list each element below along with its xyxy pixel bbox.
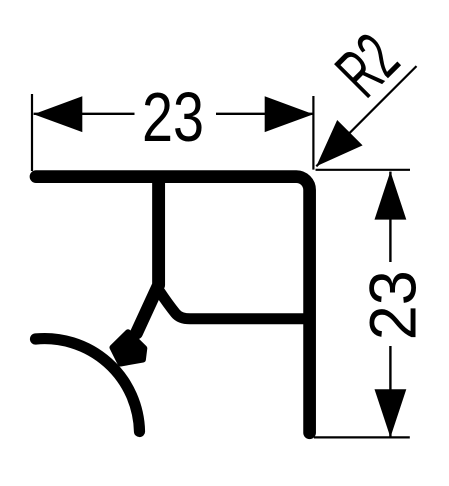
- profile inner leg with diagonal: [137, 178, 159, 333]
- extension line top (right dimension): [316, 169, 411, 171]
- extension line bottom (right dimension): [314, 436, 410, 438]
- extension line left (top dimension): [31, 94, 33, 171]
- profile outer wall (top flange + right leg): [36, 177, 310, 433]
- arrowhead right up: [375, 171, 407, 219]
- tile edge arc: [36, 339, 140, 432]
- arrowhead right down: [375, 389, 407, 437]
- profile anchoring barb: [113, 332, 145, 363]
- radius leader arrowhead: [316, 120, 362, 166]
- dimension line top left segment: [34, 113, 135, 115]
- extension line right (top dimension): [312, 96, 314, 170]
- dimension line right upper segment: [389, 172, 391, 262]
- profile inner horizontal web: [160, 292, 304, 319]
- svg-text:23: 23: [355, 270, 429, 340]
- arrowhead top right: [265, 96, 314, 132]
- dimension line top right segment: [216, 113, 313, 115]
- arrowhead top left: [34, 96, 83, 132]
- svg-text:23: 23: [142, 78, 204, 156]
- radius leader line R2: [316, 66, 416, 166]
- dimension line right lower segment: [389, 346, 391, 437]
